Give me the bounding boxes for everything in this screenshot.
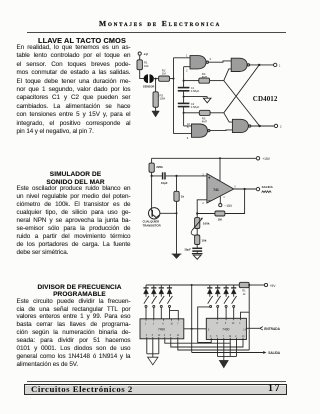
- capacitor C3 10uF: [161, 172, 168, 185]
- svg-text:1: 1: [279, 64, 281, 68]
- wire R8 to fb node: [197, 213, 215, 215]
- gate U1b (4-input NAND bottom): [192, 124, 211, 137]
- svg-text:100k: 100k: [203, 222, 210, 226]
- terminal -15V: [219, 204, 233, 209]
- wire bus1 vertical: [173, 58, 175, 134]
- resistor R9 10k: [195, 235, 207, 245]
- wire S4 elbow to pin: [170, 311, 179, 319]
- svg-text:10µF: 10µF: [184, 248, 191, 252]
- resistor R7 1k: [174, 176, 185, 201]
- sensor S1: [143, 74, 154, 88]
- wire R4 to node P1: [210, 80, 224, 82]
- wire R1 to sensor: [140, 70, 145, 79]
- wire C3 to node B to op-amp: [166, 175, 207, 177]
- svg-text:220k: 220k: [156, 165, 163, 169]
- node Vcc rail: [248, 284, 250, 286]
- resistor R1: [137, 60, 149, 70]
- node pot bottom: [196, 234, 198, 236]
- node R5 tap: [183, 112, 185, 114]
- wire U3 gnd pins: [147, 339, 159, 354]
- label cualquier transistor: [143, 220, 161, 228]
- capacitor C4 10uF: [184, 248, 202, 252]
- diode D7: [224, 285, 229, 297]
- wire bus1 to gate U1a input1: [174, 57, 191, 59]
- node inter-IC: [191, 328, 193, 330]
- text block 2 title: [17, 171, 135, 186]
- svg-text:+V: +V: [144, 53, 149, 57]
- wire U1c out to terminal: [250, 64, 274, 66]
- node out1: [258, 64, 260, 66]
- svg-text:0.68µF: 0.68µF: [191, 89, 200, 93]
- wire fb node to inverting input: [197, 200, 207, 214]
- header rule: [27, 32, 286, 33]
- resistor R2: [159, 69, 170, 82]
- node R4 tap: [183, 80, 185, 82]
- wire feedback down: [225, 189, 245, 214]
- footer thin rule: [27, 381, 287, 382]
- ground arrow c2: [172, 254, 182, 259]
- svg-text:TRANSISTOR: TRANSISTOR: [143, 223, 161, 227]
- svg-text:741: 741: [213, 188, 219, 192]
- terminal +15V: [256, 157, 270, 162]
- wire rail drop to salida rail: [191, 285, 193, 353]
- wire sensor to node: [153, 78, 159, 80]
- wire R6 to node A: [152, 172, 163, 176]
- wire salida rail: [192, 352, 264, 354]
- svg-text:−15V: −15V: [224, 204, 233, 208]
- wire R2 to bus1: [169, 78, 173, 80]
- node V+ rail: [219, 157, 221, 159]
- wire bus2 lower: [184, 107, 192, 126]
- svg-text:4M7: 4M7: [202, 75, 208, 79]
- wire P1 to U1c lower input: [224, 69, 231, 81]
- header title: [0, 20, 320, 28]
- node base junction: [176, 212, 178, 214]
- terminal entrada arrow: [260, 327, 281, 331]
- wire pot to R9: [196, 228, 198, 235]
- resistor R8 1M: [215, 211, 225, 221]
- node bus1/R2: [173, 78, 175, 80]
- wire node A down to transistor: [151, 176, 153, 209]
- terminal +V: [138, 52, 148, 57]
- resistor R10 1k: [239, 282, 249, 296]
- gate U1c (NAND latch top): [231, 58, 250, 71]
- capacitor C1: [178, 86, 200, 93]
- wire bus2 mid + gnd tap: [184, 91, 208, 103]
- node output: [244, 188, 246, 190]
- text block 1 title: [38, 37, 126, 44]
- switch S4: [167, 296, 172, 311]
- svg-text:4M7: 4M7: [202, 119, 208, 123]
- switch S6: [216, 296, 221, 318]
- node out2: [258, 125, 260, 127]
- diode D8: [231, 285, 236, 297]
- wire U1a out to U1c in: [209, 61, 232, 62]
- wire bus2 vertical upper: [183, 67, 185, 88]
- terminal +5V: [264, 283, 276, 288]
- wire U3 pin11 long: [178, 339, 249, 350]
- diode D2: [151, 285, 156, 297]
- wire V+ lead: [219, 158, 221, 181]
- svg-text:−: −: [208, 198, 211, 203]
- node rail drop: [191, 284, 193, 286]
- node gnd tap: [183, 96, 185, 98]
- terminal out1: [274, 63, 281, 67]
- svg-text:SALIDA: SALIDA: [268, 351, 281, 355]
- node R3 junction: [155, 78, 157, 80]
- wire R7 to ground line: [176, 201, 178, 254]
- footer book title: [31, 385, 133, 394]
- svg-text:10k: 10k: [144, 64, 149, 68]
- wire U1b out to U1d in: [210, 129, 232, 132]
- svg-text:1M: 1M: [162, 72, 167, 76]
- wire R5 tap: [184, 112, 200, 114]
- svg-text:1M: 1M: [218, 217, 223, 221]
- terminal salida arrow: [263, 351, 281, 355]
- wire +5V rail: [146, 284, 239, 286]
- wire R10 to terminal: [249, 284, 264, 286]
- capacitor C2: [178, 102, 200, 109]
- wire R4 tap: [184, 80, 199, 82]
- svg-text:10k: 10k: [201, 239, 206, 243]
- footer page number: [268, 384, 284, 394]
- switch S5: [208, 296, 213, 308]
- svg-text:9: 9: [187, 136, 189, 140]
- svg-text:1: 1: [186, 53, 188, 57]
- gate U1d (NAND latch bottom): [232, 119, 251, 132]
- wire R9 to C4: [196, 245, 198, 248]
- svg-text:1k: 1k: [181, 195, 185, 199]
- svg-text:ENTRADA: ENTRADA: [264, 327, 280, 331]
- svg-text:10M: 10M: [160, 97, 166, 101]
- wire S5 hook around IC: [198, 307, 212, 343]
- resistor R3: [153, 79, 166, 108]
- switch S8: [232, 296, 237, 318]
- IC U3 7490: [140, 319, 184, 339]
- ground mid: [203, 97, 211, 103]
- wire cross P1 to node out2: [224, 81, 260, 126]
- text block 1 body: [17, 44, 131, 136]
- wire R5 to node P2: [210, 112, 224, 114]
- svg-text:2: 2: [186, 68, 188, 72]
- terminal salida: [256, 185, 273, 193]
- node feedback: [196, 212, 198, 214]
- potentiometer P1 100k: [191, 214, 210, 236]
- diode D5: [207, 285, 212, 297]
- resistor R4: [199, 72, 210, 83]
- svg-text:3: 3: [210, 57, 212, 61]
- text block 3 body: [17, 298, 131, 369]
- svg-text:2: 2: [202, 202, 204, 205]
- svg-text:7490: 7490: [222, 328, 229, 332]
- svg-text:SALIDA: SALIDA: [262, 185, 274, 189]
- ground right c3: [219, 359, 228, 368]
- IC U4 7490: [206, 318, 246, 339]
- svg-text:6: 6: [234, 186, 236, 189]
- transistor Q1: [149, 208, 177, 219]
- wire U3 out pin to U4: [184, 328, 207, 330]
- wire U3 cross wires to U4: [165, 339, 243, 347]
- svg-text:2: 2: [280, 125, 282, 129]
- diode D3: [159, 285, 164, 297]
- wire P2 to U1d upper input: [224, 113, 233, 122]
- footer box: [24, 384, 287, 395]
- ground left c3: [148, 354, 158, 365]
- switch S7: [224, 296, 229, 318]
- svg-text:CD4012: CD4012: [253, 95, 278, 103]
- text block 2 body: [17, 185, 131, 256]
- wire Vcc elbow to U4: [241, 285, 250, 350]
- svg-text:10µF: 10µF: [161, 181, 168, 185]
- wire output: [234, 188, 256, 190]
- wire entrada: [246, 327, 259, 329]
- svg-text:0.68µF: 0.68µF: [191, 105, 200, 109]
- svg-text:4: 4: [223, 196, 225, 199]
- ground under R3: [152, 107, 159, 117]
- op-amp U2 741: [202, 174, 236, 205]
- diode D6: [215, 285, 220, 297]
- diode D1: [143, 285, 148, 297]
- node A: [151, 175, 153, 177]
- ground bottom right c2: [192, 251, 203, 259]
- svg-text:+5V: +5V: [270, 284, 277, 288]
- text block 3 title: [17, 284, 143, 299]
- wire bus2 to gate U1a input2: [184, 66, 190, 68]
- wire V- lead: [219, 196, 221, 203]
- op gate U1a (4-input NAND): [190, 56, 209, 69]
- resistor R5: [199, 110, 210, 123]
- switch S1: [144, 296, 149, 319]
- wire U4 gnd pins: [218, 340, 237, 359]
- node B: [175, 175, 177, 177]
- svg-text:+15V: +15V: [262, 157, 271, 161]
- switch S3: [159, 296, 164, 319]
- wire U1d out to terminal: [251, 125, 274, 127]
- terminal out2: [274, 124, 282, 128]
- diode D4: [167, 285, 172, 297]
- wire +V rail: [152, 157, 257, 159]
- svg-text:SENSOR: SENSOR: [143, 85, 154, 89]
- wire cross P2 to node out1: [224, 65, 259, 113]
- svg-text:7490: 7490: [158, 328, 165, 332]
- wire bus1 to gate U1b input: [174, 133, 192, 135]
- wire +V to R1: [139, 55, 141, 59]
- resistor R6 220k: [149, 158, 163, 172]
- switch S2: [152, 296, 157, 319]
